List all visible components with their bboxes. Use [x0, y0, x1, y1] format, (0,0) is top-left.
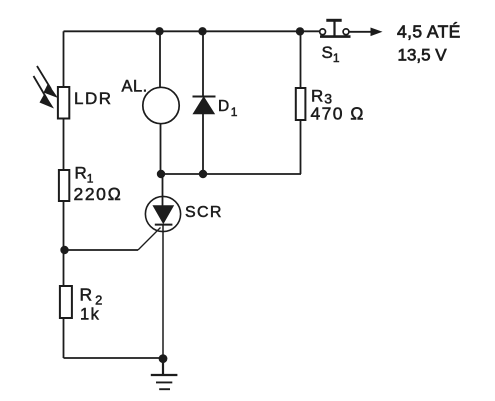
svg-text:13,5 V: 13,5 V	[398, 46, 448, 65]
wire gate node to R2	[63, 250, 65, 286]
SCR thyristor body circle	[145, 196, 180, 231]
lamp AL body	[143, 87, 179, 123]
wire lamp AL stem from top rail	[159, 31, 161, 87]
wire switch to output arrow	[349, 31, 372, 33]
wire top rail from left corner to switch S1	[64, 30, 321, 32]
wire D1 stem from top rail	[202, 31, 204, 96]
switch S1 push-button	[320, 20, 351, 36]
node junction mid rail at AL column	[157, 170, 165, 178]
wire gate horizontal from node	[65, 249, 139, 251]
node junction top rail at AL column	[155, 27, 163, 35]
diode D1	[193, 97, 216, 114]
svg-text:220Ω: 220Ω	[74, 184, 123, 204]
wire left column top (corner to LDR)	[63, 31, 65, 87]
wire bottom rail	[64, 357, 164, 359]
svg-text:1k: 1k	[80, 306, 100, 324]
svg-text:D1: D1	[218, 98, 238, 119]
wire R3 to mid rail	[300, 120, 302, 174]
node junction top rail at R3 column	[296, 27, 304, 35]
svg-text:470 Ω: 470 Ω	[311, 104, 366, 124]
wire SCR cathode down to ground junction	[162, 225, 164, 359]
wire R3 stem from top rail	[300, 31, 302, 88]
svg-text:R2: R2	[80, 285, 103, 308]
wire SCR anode from mid rail	[162, 174, 164, 206]
node junction at gate takeoff	[60, 246, 68, 254]
node junction bottom at ground	[159, 354, 168, 363]
LDR light arrow lower	[34, 76, 55, 109]
wire D1 to mid rail	[202, 114, 204, 175]
svg-text:AL.: AL.	[122, 78, 148, 96]
resistor R3 body	[296, 88, 306, 120]
svg-text:R1: R1	[75, 164, 94, 186]
wire lamp AL to mid rail	[160, 124, 162, 174]
node junction mid rail at D1 column	[199, 170, 207, 178]
resistor R2 body	[60, 286, 72, 318]
wire LDR to R1	[63, 119, 65, 171]
wire R2 to bottom rail	[63, 318, 65, 358]
ground symbol	[151, 359, 178, 390]
wire R1 to gate node	[63, 201, 65, 250]
resistor R1 body	[59, 170, 69, 201]
output arrow head	[371, 28, 383, 37]
SCR cathode bar	[155, 224, 173, 226]
svg-text:S1: S1	[322, 43, 340, 65]
wire mid rail (AL/D1/R3 bottom bus)	[161, 173, 301, 175]
svg-text:LDR: LDR	[74, 89, 113, 108]
svg-text:4,5 ATÉ: 4,5 ATÉ	[397, 22, 461, 42]
LDR light arrow upper	[37, 66, 58, 98]
SCR triangle	[153, 206, 173, 223]
svg-text:SCR: SCR	[185, 204, 223, 221]
wire gate diagonal into SCR	[138, 228, 161, 251]
resistor LDR body	[58, 87, 69, 119]
node junction top rail at D1 column	[198, 27, 206, 35]
